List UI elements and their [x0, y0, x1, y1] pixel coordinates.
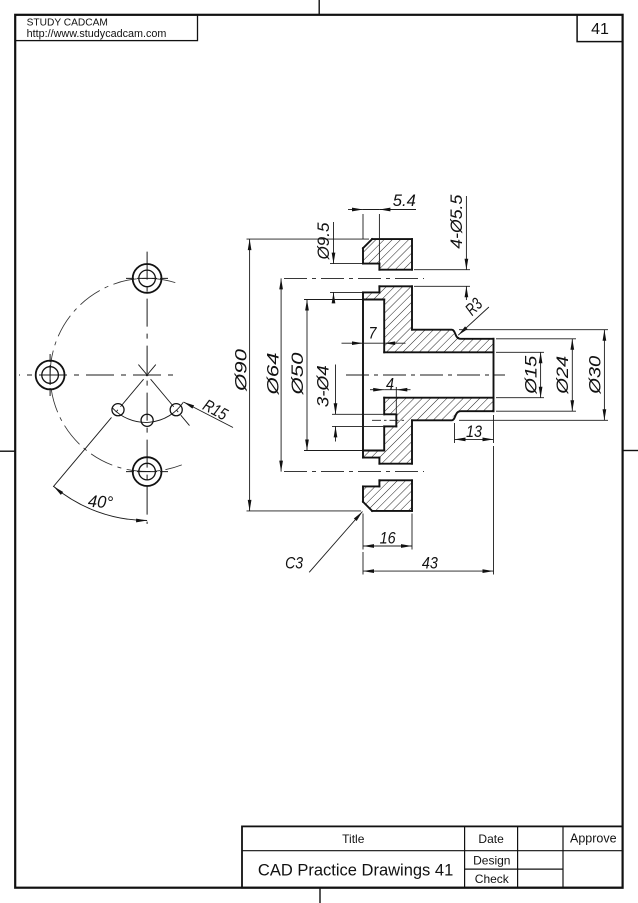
bolt hole top (counterbore Ø9.5 / hole Ø5.5) — [133, 264, 162, 293]
hub Ø30 top edge with R3 fillet — [412, 330, 494, 339]
flange right face between hole and hub — [411, 286, 413, 329]
svg-text:STUDY CADCAM: STUDY CADCAM — [27, 18, 108, 29]
svg-text:Design: Design — [473, 853, 510, 867]
svg-text:43: 43 — [422, 553, 438, 572]
dim Ø50 extension lines — [304, 299, 362, 301]
svg-text:Title: Title — [342, 832, 365, 846]
left center mark — [0, 450, 15, 452]
40deg dim extension line — [53, 417, 111, 486]
hatch strip below bottom bolt hole — [379, 480, 412, 486]
flange left face between counterbore and pocket — [362, 292, 364, 299]
40 deg dimension arc — [54, 486, 148, 520]
centerline tick through bottom hole — [126, 471, 168, 473]
Ø4 notch top wall — [384, 413, 396, 415]
svg-text:3-Ø4: 3-Ø4 — [313, 365, 332, 407]
dim 4 line outside arrows — [370, 389, 384, 391]
svg-text:Ø64: Ø64 — [263, 353, 282, 396]
hatch web bottom (minus Ø4 notch) — [384, 398, 412, 451]
dim Ø24 extension lines — [496, 338, 576, 340]
bottom center mark — [319, 888, 321, 903]
pocket bottom wall Ø50 — [363, 450, 384, 452]
svg-text:40°: 40° — [87, 492, 113, 513]
hatch strip above bottom bolt hole — [379, 458, 412, 464]
dim 4-Ø5.5 extension lines — [414, 269, 470, 271]
dim 5.4 line with outside arrows — [348, 209, 363, 211]
bottom bolt hole centerline — [284, 471, 424, 473]
dim 4 depth: extension line — [395, 387, 397, 413]
svg-text:C3: C3 — [285, 554, 303, 573]
dim 7 line outside arrows — [342, 342, 364, 344]
svg-text:41: 41 — [591, 21, 609, 38]
svg-text:Approve: Approve — [570, 832, 617, 846]
dim 16 extension lines — [362, 514, 364, 550]
dim Ø24 line — [571, 339, 573, 411]
hatch flange rim top — [363, 239, 412, 264]
svg-text:Check: Check — [475, 872, 510, 886]
dim Ø9.5 line outside arrows — [333, 222, 335, 264]
svg-text:Ø90: Ø90 — [232, 348, 251, 392]
svg-text:Date: Date — [478, 832, 504, 846]
small hole centerline — [372, 419, 404, 421]
Ø4 notch bottom wall — [384, 425, 396, 427]
pocket rim Ø50 projected edge — [362, 300, 364, 451]
svg-text:4-Ø5.5: 4-Ø5.5 — [447, 194, 466, 249]
bottom bolt hole upper wall — [379, 463, 412, 465]
top counterbore floor (lower part) — [378, 286, 380, 292]
dim 5.4 extension lines — [362, 214, 364, 239]
flange right face above top hole — [411, 239, 413, 270]
title block table — [242, 826, 623, 887]
centerline tick through left hole — [49, 354, 51, 396]
hatch strip above top bolt hole — [379, 264, 412, 270]
main axis centerline — [346, 374, 505, 376]
radial centerline to small hole (310 deg) — [138, 365, 189, 426]
dim Ø15 line — [540, 352, 542, 397]
dim Ø9.5 extension lines — [330, 263, 362, 265]
bottom counterbore floor (upper) — [378, 458, 380, 464]
web left face lower — [383, 426, 385, 450]
dim 3-Ø4 extension lines — [332, 413, 383, 415]
bottom bolt hole lower wall — [379, 479, 412, 481]
svg-text:4: 4 — [386, 374, 394, 393]
C3 leader — [309, 512, 362, 573]
svg-text:13: 13 — [466, 422, 482, 441]
right end face — [493, 339, 495, 411]
Ø4 notch floor — [395, 414, 397, 426]
bolt hole bottom — [133, 457, 162, 486]
top bolt hole upper wall — [379, 269, 412, 271]
small hole Ø4 at bottom — [141, 414, 153, 426]
svg-text:7: 7 — [369, 324, 377, 343]
hatch web top — [384, 300, 412, 353]
svg-text:16: 16 — [380, 529, 396, 548]
top counterbore floor (upper part) — [378, 264, 380, 270]
bottom counterbore top face — [363, 457, 379, 459]
bore Ø15 bottom wall — [384, 397, 493, 399]
svg-text:Ø30: Ø30 — [585, 355, 604, 395]
dim 4-Ø5.5 line outside arrows — [465, 196, 467, 270]
page number box — [577, 15, 623, 42]
small hole Ø4 at 310deg — [170, 404, 182, 416]
svg-text:Ø50: Ø50 — [288, 352, 307, 396]
svg-text:Ø24: Ø24 — [553, 356, 572, 395]
top counterbore bottom face — [363, 291, 379, 293]
top bolt hole centerline — [284, 277, 424, 279]
flange right face bottom — [411, 480, 413, 511]
dim 16 line — [363, 545, 412, 547]
dim 43 extension line right — [493, 446, 495, 575]
hub Ø30 bottom edge with R3 fillet — [412, 411, 494, 420]
dim Ø90 line — [249, 239, 251, 511]
right center mark — [623, 450, 638, 452]
web left face upper — [383, 300, 385, 353]
flange top edge — [372, 238, 412, 240]
flange left face (lower) — [362, 486, 364, 501]
R15 leader — [184, 402, 234, 428]
bore Ø15 top wall — [384, 351, 493, 353]
dim Ø50 line — [306, 300, 308, 451]
svg-text:5.4: 5.4 — [393, 191, 416, 210]
top center mark — [318, 0, 320, 15]
bottom counterbore bottom face — [363, 485, 379, 487]
hatch band below top counterbore — [363, 292, 412, 299]
svg-text:http://www.studycadcam.com: http://www.studycadcam.com — [27, 28, 167, 40]
hatch band above bottom counterbore — [363, 451, 412, 458]
flange left face (upper) — [362, 248, 364, 263]
hatch flange rim bottom — [363, 486, 412, 511]
dim Ø90 extension lines — [247, 238, 370, 240]
flange left face between pocket and bottom counterbore — [362, 451, 364, 458]
svg-text:R15: R15 — [200, 396, 231, 425]
bottom counterbore floor (lower) — [378, 480, 380, 486]
dim Ø15 extension lines — [496, 351, 544, 353]
dim 3-Ø4 line outside arrows — [335, 365, 337, 415]
top bolt hole lower wall — [379, 285, 412, 287]
chamfer C3 top-left — [363, 239, 372, 248]
chamfer C3 bottom-left — [363, 502, 372, 511]
R15 circle arc through small holes — [112, 402, 183, 422]
svg-text:Ø9.5: Ø9.5 — [314, 222, 333, 261]
dim 13 line — [455, 438, 494, 440]
dim Ø64 line — [280, 278, 282, 471]
bolt hole left — [36, 361, 65, 390]
hatch strip below top bolt hole — [379, 286, 412, 292]
radial centerline to small hole (230 deg) — [114, 365, 156, 415]
dim Ø30 line — [603, 330, 605, 421]
svg-text:Ø15: Ø15 — [522, 355, 541, 395]
flange right face below hub — [411, 420, 413, 463]
dim Ø30 extension lines — [459, 329, 608, 331]
svg-text:CAD Practice Drawings 41: CAD Practice Drawings 41 — [258, 861, 453, 879]
web left face below bore — [383, 398, 385, 415]
pocket top wall Ø50 — [363, 299, 384, 301]
R3 leader — [458, 307, 489, 335]
hatch hub top — [412, 330, 494, 353]
info box top-left — [15, 15, 197, 41]
vertical centerline (left view) — [146, 252, 148, 524]
flange bottom edge — [372, 510, 412, 512]
dim 43 line — [363, 570, 494, 572]
centerline tick through top hole — [126, 277, 168, 279]
horizontal centerline (left view) — [19, 374, 177, 376]
svg-text:R3: R3 — [461, 294, 486, 319]
top counterbore top face — [363, 263, 379, 265]
small hole Ø4 at 230deg — [112, 404, 124, 416]
bolt circle Ø64 arc (dash-dot) — [50, 278, 182, 471]
hatch hub bottom — [412, 398, 494, 421]
dim 13 extension lines — [454, 423, 456, 443]
